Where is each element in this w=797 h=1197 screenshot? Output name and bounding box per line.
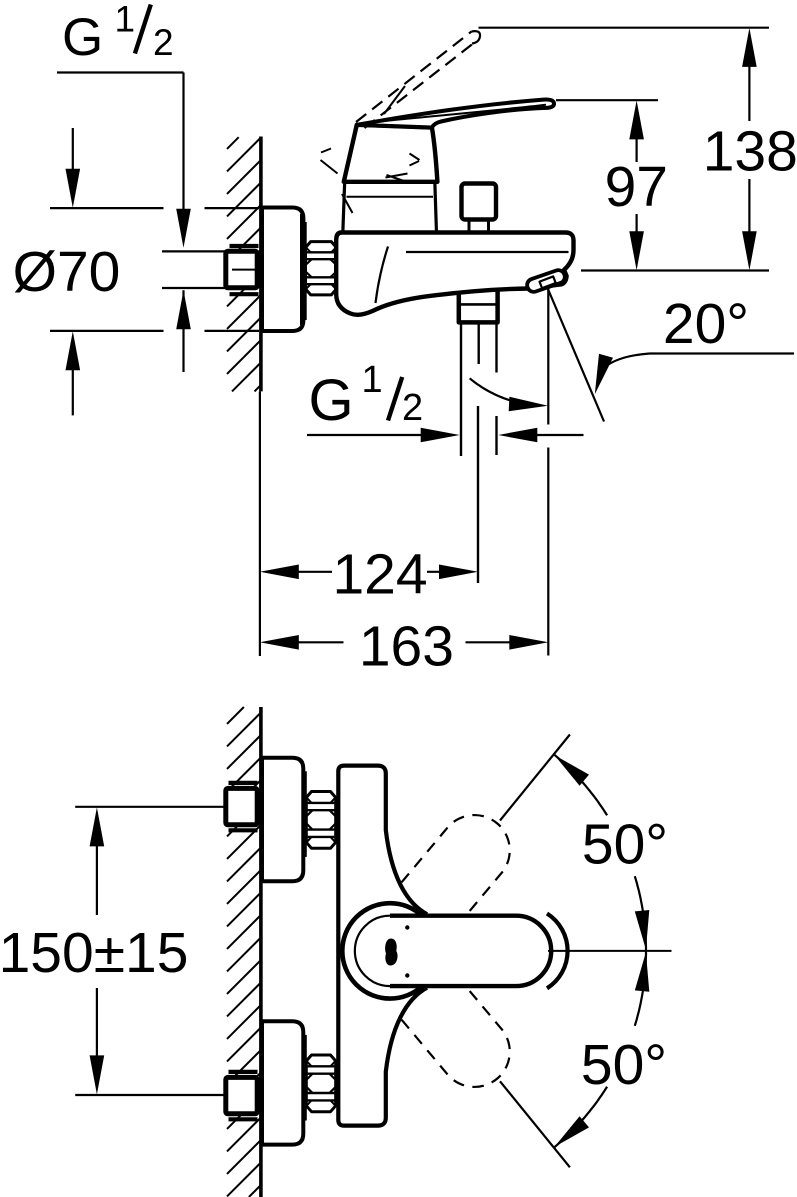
svg-text:G: G <box>62 8 103 67</box>
svg-text:50°: 50° <box>581 1033 667 1097</box>
svg-text:Ø70: Ø70 <box>13 240 121 304</box>
svg-text:1: 1 <box>115 0 136 40</box>
svg-text:97: 97 <box>605 155 668 219</box>
svg-text:2: 2 <box>153 22 174 63</box>
svg-text:20°: 20° <box>663 292 749 356</box>
svg-text:150±15: 150±15 <box>0 921 188 985</box>
svg-text:2: 2 <box>402 387 423 429</box>
svg-text:163: 163 <box>359 615 454 679</box>
svg-text:G: G <box>309 368 354 433</box>
svg-text:50°: 50° <box>582 813 668 877</box>
svg-text:1: 1 <box>362 359 383 401</box>
svg-text:124: 124 <box>332 543 427 607</box>
svg-text:138: 138 <box>703 120 797 184</box>
